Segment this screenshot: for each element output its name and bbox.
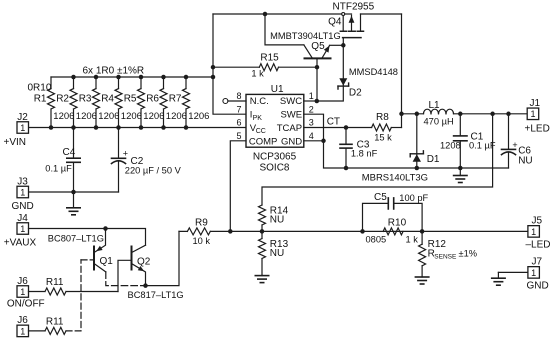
ground symbol below C4: [67, 192, 80, 215]
svg-text:R4: R4: [101, 94, 114, 105]
svg-text:Q5: Q5: [311, 41, 325, 52]
svg-text:5: 5: [236, 131, 241, 141]
junction dots +VIN rail: [49, 125, 189, 130]
resistor R6 1206: [146, 77, 187, 128]
svg-text:CT: CT: [327, 116, 340, 127]
junction dot left vertical / array rail: [211, 75, 216, 80]
resistor R11 (ON/OFF): [29, 277, 119, 295]
svg-text:R2: R2: [56, 94, 69, 105]
svg-text:1: 1: [20, 123, 25, 133]
svg-text:J1: J1: [530, 98, 541, 109]
svg-text:NTF2955: NTF2955: [333, 2, 375, 13]
junction dot D1/output line: [415, 112, 420, 117]
svg-text:1206: 1206: [143, 111, 164, 122]
resistor R8 15k: [372, 112, 402, 142]
resistor R5 1206: [124, 77, 165, 128]
svg-text:1: 1: [20, 326, 25, 336]
svg-text:4: 4: [309, 131, 314, 141]
svg-text:J7: J7: [532, 257, 543, 268]
inductor L1 470uH: [402, 100, 528, 127]
svg-text:+VIN: +VIN: [4, 137, 27, 148]
junction dot Q1 emitter/+VAUX rail: [103, 226, 108, 231]
junction dot SWC node: [315, 99, 320, 104]
svg-text:0805: 0805: [366, 234, 387, 244]
label 6x 1R0 ±1%R: [83, 65, 145, 76]
junction dot C6/output line: [506, 112, 511, 117]
svg-text:1: 1: [530, 109, 535, 119]
svg-text:1: 1: [20, 287, 25, 297]
svg-text:GND: GND: [12, 201, 34, 212]
wire Q5 emitter to gate node: [330, 44, 344, 46]
svg-text:J3: J3: [17, 176, 28, 187]
svg-text:L1: L1: [429, 100, 441, 111]
wire pin4 GND: [304, 140, 324, 142]
svg-text:1206: 1206: [188, 111, 209, 122]
svg-text:C5: C5: [374, 192, 387, 203]
junction dot COMP/mid rail: [228, 229, 233, 234]
svg-text:Q1: Q1: [100, 256, 114, 267]
junction dot feedback/output line: [490, 112, 495, 117]
junction dot C4/ground: [71, 190, 76, 195]
svg-text:NU: NU: [518, 155, 532, 166]
wire alternate R11 to Q1 base (dashed): [66, 260, 81, 331]
svg-text:0R10: 0R10: [28, 83, 52, 94]
svg-text:MBRS140LT3G: MBRS140LT3G: [362, 173, 428, 184]
svg-text:1 k: 1 k: [251, 69, 264, 79]
wire top rail right segment: [361, 13, 402, 15]
wire feedback from +LED node: [262, 114, 493, 205]
resistor R2 1206: [56, 77, 97, 128]
svg-text:R5: R5: [124, 94, 137, 105]
svg-text:J6: J6: [17, 315, 28, 326]
svg-text:1: 1: [20, 187, 25, 197]
wire J7 to ground: [498, 271, 528, 273]
pin number 5: [236, 131, 241, 141]
ground symbol below C1: [454, 168, 467, 183]
junction dots array top rail: [71, 75, 188, 80]
capacitor C4 0.1uF: [45, 128, 80, 193]
junction dot C3/ground rail: [344, 166, 349, 171]
svg-text:NCP3065: NCP3065: [253, 151, 297, 162]
resistor R7 1206: [169, 77, 210, 128]
svg-text:NU: NU: [270, 214, 284, 225]
pin number 2: [309, 104, 314, 114]
svg-text:+: +: [123, 148, 128, 158]
svg-text:1 k: 1 k: [406, 234, 419, 244]
junction dot left vertical / R15: [211, 65, 216, 70]
wire Q1 base stub (dashed): [81, 259, 94, 261]
junction dot Q2 emitter node: [143, 283, 148, 288]
pin number 3: [309, 118, 314, 128]
diode D2 MMSD4148: [317, 45, 398, 101]
op-amp U1 NCP3065 SOIC8: [246, 84, 304, 174]
resistor R9 10k: [187, 218, 210, 246]
svg-text:ON/OFF: ON/OFF: [7, 299, 45, 310]
wire pin1 SWC to D2 node: [304, 100, 317, 102]
svg-text:Q2: Q2: [137, 256, 151, 267]
svg-text:100 pF: 100 pF: [399, 193, 428, 203]
connector J3 GND: [12, 176, 34, 212]
svg-text:J6: J6: [17, 276, 28, 287]
wire Q1 collector to Q2 emitter (dashed): [106, 272, 146, 286]
svg-text:2: 2: [309, 104, 314, 114]
transistor Q1 BC807-LT1G: [48, 229, 113, 272]
svg-text:10 k: 10 k: [193, 236, 211, 246]
svg-text:SWE: SWE: [280, 110, 302, 121]
svg-text:8: 8: [236, 91, 241, 101]
transistor Q4 NTF2955 P-MOSFET: [328, 2, 374, 46]
junction dot R14/R13/mid rail: [260, 229, 265, 234]
svg-text:U1: U1: [271, 84, 284, 95]
svg-text:N.C.: N.C.: [250, 96, 269, 107]
wire resistor array top rail: [51, 76, 213, 78]
svg-text:BC807–LT1G: BC807–LT1G: [48, 233, 104, 243]
junction dot C5 left/mid rail: [360, 229, 365, 234]
svg-text:1.8 nF: 1.8 nF: [351, 148, 378, 158]
connector J2 +VIN: [4, 112, 29, 148]
svg-text:SENSE: SENSE: [434, 254, 457, 261]
resistor R11 (alternate): [29, 317, 67, 335]
resistor R14 NU: [259, 205, 289, 231]
connector J6 ON/OFF: [7, 276, 45, 310]
wire mid rail R9 to J5: [179, 230, 528, 232]
capacitor C6 NU: [502, 114, 533, 168]
svg-text:R11: R11: [46, 277, 64, 288]
label 0R10: [28, 83, 52, 94]
wire pin2 SWE down to GND: [304, 114, 324, 141]
resistor R3 1206: [79, 77, 120, 128]
resistor R13 NU: [259, 231, 289, 275]
svg-text:SOIC8: SOIC8: [259, 163, 289, 174]
svg-text:R7: R7: [169, 94, 182, 105]
svg-text:3: 3: [309, 118, 314, 128]
wire pin5 COMP to feedback rail: [230, 141, 246, 232]
junction dot top rail / Q5 collector: [263, 12, 268, 17]
svg-text:0.1 µF: 0.1 µF: [469, 141, 496, 151]
svg-text:1206: 1206: [166, 111, 187, 122]
wire ON/OFF to Q2 base: [118, 260, 132, 291]
wire Q5 base down to SWC: [316, 67, 318, 101]
svg-text:1: 1: [309, 91, 314, 101]
junction dot switch node / L1: [399, 112, 404, 117]
svg-text:220 µF / 50 V: 220 µF / 50 V: [125, 166, 182, 176]
svg-text:SWC: SWC: [280, 96, 302, 107]
capacitor C5 100pF: [363, 192, 429, 231]
transistor Q2 BC817-LT1G: [128, 245, 184, 300]
wire pin3 TCAP to R8: [304, 127, 372, 129]
wire J3 ground rail: [29, 191, 119, 193]
capacitor C1 0.1uF 1208: [440, 114, 496, 168]
wire top rail left segment: [213, 13, 341, 15]
svg-text:GND: GND: [527, 281, 549, 292]
junction dot C5 right/R12/mid rail: [420, 229, 425, 234]
svg-text:R11: R11: [46, 317, 64, 328]
junction dot gate node: [341, 43, 346, 48]
junction dot Q5 base / R15 / SWC: [315, 65, 320, 70]
connector J4 +VAUX: [4, 213, 37, 249]
wire left vertical to IPK pin: [213, 14, 246, 114]
node CT label: [327, 116, 340, 127]
pin number 1: [309, 91, 314, 101]
svg-text:TCAP: TCAP: [277, 123, 302, 134]
svg-text:1206: 1206: [121, 111, 142, 122]
svg-text:R6: R6: [146, 94, 159, 105]
svg-text:1: 1: [20, 224, 25, 234]
svg-text:R1: R1: [34, 94, 47, 105]
transistor Q5 MMBT3904LT1G: [270, 31, 341, 67]
svg-text:CC: CC: [256, 128, 266, 135]
connector J7 GND: [527, 257, 549, 292]
svg-text:Q4: Q4: [328, 16, 342, 27]
connector J5 -LED: [526, 216, 551, 251]
ground symbol below R13: [255, 275, 268, 282]
svg-text:R9: R9: [195, 218, 208, 229]
svg-text:1206: 1206: [98, 111, 119, 122]
wire right vertical (Q4 drain to R8): [401, 14, 403, 128]
svg-text:+VAUX: +VAUX: [4, 237, 37, 248]
resistor R12 RSENSE: [419, 231, 477, 276]
pin number 6: [236, 118, 241, 128]
svg-text:15 k: 15 k: [374, 132, 392, 142]
capacitor C2 220uF/50V: [112, 128, 182, 193]
ground symbol below R12: [415, 277, 428, 284]
svg-text:+LED: +LED: [525, 124, 550, 135]
pin number 4: [309, 131, 314, 141]
svg-text:D2: D2: [349, 88, 362, 99]
svg-text:0.1 µF: 0.1 µF: [45, 164, 72, 174]
connector J6 alternate: [17, 315, 29, 337]
svg-text:J2: J2: [17, 112, 28, 123]
svg-text:R8: R8: [376, 112, 389, 123]
ground symbol at J7: [492, 272, 505, 285]
svg-text:J5: J5: [532, 216, 543, 227]
svg-text:470 µH: 470 µH: [424, 117, 454, 127]
svg-text:1: 1: [531, 268, 536, 278]
svg-text:R3: R3: [79, 94, 92, 105]
svg-text:6x 1R0 ±1%R: 6x 1R0 ±1%R: [83, 65, 145, 76]
svg-text:1208: 1208: [440, 141, 461, 151]
connector J1 +LED: [525, 98, 550, 135]
svg-text:1206: 1206: [53, 111, 74, 122]
svg-text:1206: 1206: [76, 111, 97, 122]
wire GND down and right (ground rail): [324, 141, 509, 168]
resistor R10 1k 0805: [366, 217, 419, 244]
svg-text:C4: C4: [63, 147, 76, 158]
svg-text:1: 1: [531, 227, 536, 237]
svg-text:D1: D1: [427, 154, 440, 165]
svg-text:J4: J4: [17, 213, 28, 224]
wire +VIN rail: [29, 127, 247, 129]
svg-text:GND: GND: [281, 137, 302, 148]
junction dot C1/ground rail: [458, 166, 463, 171]
svg-text:+: +: [512, 140, 517, 150]
wire Q5 collector from top rail: [265, 14, 304, 45]
junction dot C1/output line: [458, 112, 463, 117]
resistor R4 1206: [101, 77, 142, 128]
svg-text:NU: NU: [270, 248, 284, 259]
resistor R15 1k: [213, 53, 317, 79]
svg-text:R15: R15: [260, 53, 279, 64]
pin number 8: [236, 91, 241, 101]
junction dot D1/ground rail: [415, 166, 420, 171]
svg-text:PK: PK: [253, 115, 263, 122]
svg-text:MMSD4148: MMSD4148: [349, 67, 398, 77]
svg-text:MMBT3904LT1G: MMBT3904LT1G: [270, 31, 341, 41]
wire Q2 emitter to R9: [146, 231, 180, 285]
resistor R1 1206: [34, 77, 75, 128]
pin 8 N.C. stub with no-connect circle: [223, 99, 246, 104]
svg-text:7: 7: [236, 104, 241, 114]
junction dot TCAP/C3: [344, 125, 349, 130]
diode D1 MBRS140LT3G: [362, 114, 440, 184]
pin number 7: [236, 104, 241, 114]
junction dot pin2/pin4: [321, 139, 326, 144]
svg-text:±1%: ±1%: [459, 248, 478, 258]
svg-text:6: 6: [236, 118, 241, 128]
capacitor C3 1.8nF: [340, 128, 378, 169]
svg-text:R10: R10: [388, 217, 407, 228]
svg-text:BC817–LT1G: BC817–LT1G: [128, 290, 184, 300]
svg-text:COMP: COMP: [249, 137, 278, 148]
wire J4 +VAUX rail: [29, 229, 146, 246]
svg-text:–LED: –LED: [526, 240, 551, 251]
